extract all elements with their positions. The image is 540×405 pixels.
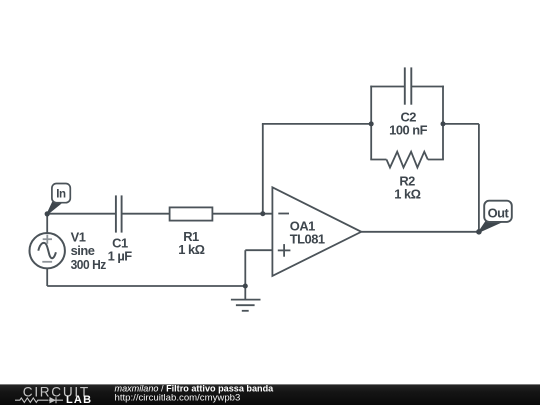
node In — [45, 184, 71, 217]
wire op-amp noninverting input — [245, 249, 272, 251]
junction dot inverting input — [260, 211, 265, 216]
wire block right vertical — [442, 86, 444, 160]
wire block bottom branch left — [370, 159, 386, 161]
V1 labels — [71, 230, 106, 272]
junction dot ground rail — [243, 284, 248, 289]
svg-text:100 nF: 100 nF — [389, 122, 427, 137]
svg-text:In: In — [56, 189, 66, 201]
svg-text:1 kΩ: 1 kΩ — [178, 242, 204, 257]
wire bottom rail — [47, 285, 245, 287]
wire noninverting down to ground rail — [244, 250, 246, 286]
node Out — [476, 201, 512, 235]
svg-text:TL081: TL081 — [290, 232, 325, 247]
capacitor C1 — [116, 195, 122, 232]
capacitor C2 — [405, 67, 412, 104]
C2 labels — [389, 109, 427, 137]
R2 labels — [394, 173, 420, 201]
resistor R2 — [387, 152, 428, 168]
wire V1 top stub — [46, 214, 48, 233]
wire block top branch right — [412, 86, 444, 88]
op-amp OA1 — [272, 187, 361, 276]
wire feedback horizontal to block left — [262, 123, 371, 125]
wire block left vertical — [370, 86, 372, 160]
ground — [231, 286, 261, 311]
voltage source V1 — [30, 233, 65, 268]
wire block bottom branch right — [428, 159, 444, 161]
C1 labels — [108, 235, 133, 263]
wire feedback vertical from inverting node up — [262, 124, 264, 214]
svg-text:Out: Out — [488, 206, 510, 221]
svg-text:1 µF: 1 µF — [108, 249, 133, 264]
wire R1 to op-amp inverting input — [212, 213, 272, 215]
footer bar — [0, 384, 540, 405]
svg-text:LAB: LAB — [66, 394, 92, 405]
wire C1 to R1 — [122, 213, 169, 215]
svg-text:1 kΩ: 1 kΩ — [394, 187, 420, 202]
CircuitLab logo — [15, 384, 92, 405]
wire input node to C1 — [47, 213, 115, 215]
resistor R1 — [170, 207, 213, 220]
R1 labels — [178, 229, 204, 257]
wire V1 bottom stub — [46, 269, 48, 287]
junction dot block right — [441, 121, 446, 126]
wire block top branch left — [370, 86, 404, 88]
wire block right to output vertical — [442, 123, 479, 125]
OA1 labels — [290, 219, 325, 247]
svg-text:300 Hz: 300 Hz — [71, 257, 106, 272]
svg-text:http://circuitlab.com/cmywpb3: http://circuitlab.com/cmywpb3 — [115, 393, 241, 404]
wire op-amp output to out node — [361, 231, 479, 233]
junction dot block left — [369, 121, 374, 126]
wire output vertical down — [478, 124, 480, 232]
